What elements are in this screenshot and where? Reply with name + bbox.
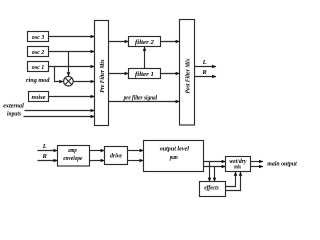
svg-text:Pre Filter Mix: Pre Filter Mix — [99, 59, 106, 93]
wire pan to wet/dry mix R — [204, 166, 226, 168]
svg-text:osc 2: osc 2 — [32, 49, 45, 56]
wet/dry mix box — [226, 157, 251, 172]
svg-text:external: external — [3, 103, 24, 110]
filter 2 box — [129, 37, 161, 47]
svg-text:filter 1: filter 1 — [135, 71, 154, 78]
wire R into amp envelope — [38, 160, 58, 162]
ring modulator multiplier symbol — [64, 76, 74, 86]
filter 1 box — [129, 69, 161, 79]
label external inputs — [3, 103, 24, 118]
wire effects to wet/dry mix L — [226, 172, 236, 187]
wire drive to output level pan R — [128, 160, 144, 162]
svg-text:ring mod: ring mod — [26, 77, 50, 84]
amp envelope box — [58, 146, 90, 167]
wire main output L — [251, 161, 264, 163]
wire noise to Pre Filter Mix — [49, 96, 95, 98]
wire external input 1 to Pre Filter Mix — [25, 110, 95, 112]
svg-text:osc 3: osc 3 — [32, 34, 45, 41]
output level pan box — [144, 141, 204, 172]
wire main output R — [251, 166, 264, 168]
svg-text:envelope: envelope — [63, 155, 82, 162]
mixer block Post Filter Mix — [180, 20, 195, 126]
svg-text:pre filter signal: pre filter signal — [123, 95, 157, 102]
wire branch down to effects L — [209, 162, 211, 182]
drive box — [105, 147, 128, 165]
wire Pre Filter Mix to filter 2 — [109, 41, 129, 43]
svg-text:effects: effects — [204, 185, 219, 192]
wire osc1 branch down to ring mod — [55, 67, 64, 82]
svg-text:inputs: inputs — [7, 111, 21, 118]
svg-text:filter 2: filter 2 — [135, 39, 155, 46]
wire osc1 to Pre Filter Mix — [49, 66, 95, 68]
wire amp envelope to drive R — [90, 160, 105, 162]
oscillator box osc 2 — [28, 47, 49, 57]
oscillator box osc 1 — [28, 62, 49, 72]
svg-text:drive: drive — [110, 153, 122, 160]
effects box — [200, 182, 226, 197]
wire amp envelope to drive L — [90, 150, 105, 152]
svg-text:R: R — [201, 69, 207, 76]
svg-text:output level: output level — [160, 145, 189, 152]
svg-text:pan: pan — [169, 154, 178, 161]
wire ring mod to Pre Filter Mix — [73, 81, 94, 83]
wire Pre Filter Mix to filter 1 — [109, 73, 129, 75]
svg-text:L: L — [202, 59, 207, 66]
svg-text:osc 1: osc 1 — [32, 64, 45, 71]
wire R output of Post Filter Mix — [195, 76, 217, 78]
wire drive to output level pan L — [128, 150, 144, 152]
wire L output of Post Filter Mix — [195, 66, 217, 68]
svg-text:noise: noise — [32, 94, 46, 101]
oscillator box osc 3 — [28, 32, 49, 42]
svg-text:R: R — [42, 153, 48, 160]
svg-text:main output: main output — [267, 161, 297, 168]
svg-text:mix: mix — [234, 163, 242, 170]
svg-text:amp: amp — [68, 147, 77, 154]
wire external input 2 to Pre Filter Mix — [24, 116, 95, 118]
svg-text:L: L — [42, 143, 47, 150]
wire osc3 to Pre Filter Mix — [49, 36, 95, 38]
wire osc2 branch down to ring mod — [68, 52, 70, 77]
svg-text:Post Filter Mix: Post Filter Mix — [184, 58, 191, 94]
wire L into amp envelope — [38, 150, 58, 152]
wire pre filter signal to Post Filter Mix — [109, 101, 180, 103]
wire osc2 to Pre Filter Mix — [49, 51, 95, 53]
wire filter 1 to Post Filter Mix — [161, 73, 180, 75]
wire branch down to effects R — [214, 167, 216, 182]
wire effects to wet/dry mix R — [226, 172, 241, 191]
wire filter 2 to Post Filter Mix — [161, 41, 180, 43]
noise box — [29, 92, 49, 102]
wire pan to wet/dry mix L — [204, 161, 226, 163]
wire filter 1 to filter 2 — [144, 47, 146, 69]
mixer block Pre Filter Mix — [95, 21, 109, 126]
